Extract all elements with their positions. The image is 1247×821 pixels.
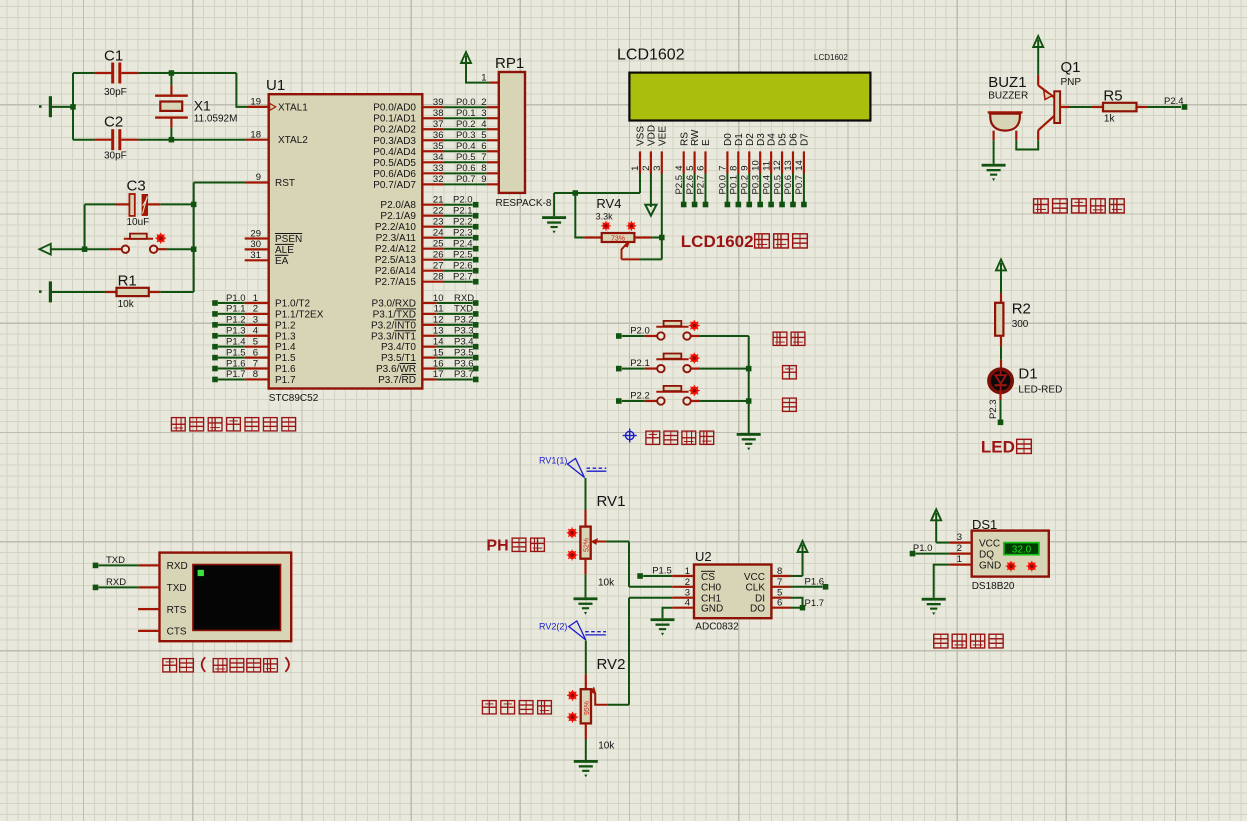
svg-text:RXD: RXD	[167, 561, 188, 572]
capacitor C1	[73, 48, 138, 99]
svg-text:4: 4	[481, 119, 486, 130]
svg-text:INT1: INT1	[394, 331, 416, 342]
svg-text:ALE: ALE	[275, 245, 294, 256]
svg-text:CLK: CLK	[746, 583, 766, 594]
svg-text:TXD: TXD	[106, 555, 125, 566]
wire arrow to reset button	[51, 248, 122, 250]
svg-text:RP1: RP1	[495, 55, 524, 72]
wire P2.1 to button	[622, 368, 657, 370]
svg-text:P2.4/A12: P2.4/A12	[375, 244, 417, 255]
svg-text:12: 12	[433, 315, 444, 326]
svg-text:RV2: RV2	[597, 656, 626, 673]
svg-text:STC89C52: STC89C52	[269, 393, 319, 404]
temperature sensor DS1 DS18B20	[972, 517, 1049, 592]
svg-text:P0.7: P0.7	[456, 174, 476, 185]
svg-text:31: 31	[250, 250, 261, 261]
svg-text:P2.1/A9: P2.1/A9	[380, 211, 416, 222]
svg-text:3.3k: 3.3k	[596, 212, 614, 222]
svg-text:XTAL1: XTAL1	[278, 102, 308, 113]
button ground bus	[748, 336, 750, 433]
label LCD1602显示屏	[681, 232, 808, 251]
svg-text:GND: GND	[701, 604, 723, 615]
svg-text:R5: R5	[1103, 87, 1122, 104]
svg-text:11: 11	[761, 161, 772, 171]
svg-text:TXD: TXD	[454, 304, 473, 315]
svg-text:24: 24	[433, 228, 444, 239]
svg-text:P1.4: P1.4	[275, 342, 296, 353]
U1 pins PSEN/ALE/EA stubs	[245, 228, 269, 261]
svg-text:D4: D4	[767, 133, 778, 146]
LCD pin names and stubs	[630, 125, 810, 174]
svg-text:P0.6/AD6: P0.6/AD6	[373, 169, 416, 180]
svg-text:R1: R1	[118, 273, 137, 290]
svg-text:VCC: VCC	[979, 539, 1000, 550]
svg-text:3: 3	[481, 108, 486, 119]
label 测温模块	[934, 634, 1003, 648]
wire reset button to RST	[157, 248, 194, 250]
ground (buttons)	[737, 433, 761, 450]
svg-text:14: 14	[433, 336, 444, 347]
svg-text:P0.4/AD4: P0.4/AD4	[373, 147, 416, 158]
svg-text:P1.1/T2EX: P1.1/T2EX	[275, 309, 324, 320]
svg-text:30: 30	[250, 239, 261, 250]
power terminal (RP1)	[461, 52, 471, 83]
terminal P1.5 to CS	[637, 566, 694, 579]
svg-text:P3.2: P3.2	[454, 315, 474, 326]
svg-text:P0.1/AD1: P0.1/AD1	[373, 114, 416, 125]
svg-text:22: 22	[433, 206, 444, 217]
svg-text:9: 9	[481, 174, 486, 185]
svg-text:P3.4: P3.4	[454, 336, 474, 347]
svg-text:P0.0/AD0: P0.0/AD0	[373, 103, 416, 114]
wire button P2.0 to gnd bus	[691, 335, 749, 337]
svg-text:P1.7: P1.7	[226, 369, 246, 380]
RV1 wiper to CH0	[591, 538, 630, 587]
svg-text:P2.6: P2.6	[453, 261, 473, 272]
svg-text:P2.6/A14: P2.6/A14	[375, 266, 417, 277]
svg-text:6: 6	[253, 347, 258, 358]
svg-text:VSS: VSS	[636, 126, 647, 146]
svg-text:P3.6/: P3.6/	[376, 364, 400, 375]
svg-text:C1: C1	[104, 48, 123, 65]
svg-text:P3.0/RXD: P3.0/RXD	[372, 299, 416, 310]
svg-text:8: 8	[481, 163, 486, 174]
svg-text:P3.1/: P3.1/	[373, 309, 397, 320]
svg-text:27: 27	[433, 261, 444, 272]
svg-text:WR: WR	[399, 364, 416, 375]
svg-text:32: 32	[433, 174, 444, 185]
svg-text:37: 37	[433, 119, 444, 130]
svg-text:P3.2/: P3.2/	[371, 320, 395, 331]
power terminal (DS1)	[931, 509, 941, 542]
svg-text:LCD1602: LCD1602	[617, 47, 685, 64]
svg-text:P0.1: P0.1	[456, 108, 476, 119]
svg-text:RXD: RXD	[106, 577, 126, 588]
svg-text:P0.2/AD2: P0.2/AD2	[373, 125, 416, 136]
resistor pack RP1 RESPACK-8	[495, 55, 552, 209]
wire CH1	[629, 597, 694, 599]
svg-text:LED-RED: LED-RED	[1018, 385, 1062, 396]
svg-text:P2.5/A13: P2.5/A13	[375, 255, 417, 266]
svg-text:P2.6: P2.6	[685, 175, 696, 195]
svg-text:13: 13	[433, 326, 444, 337]
svg-text:U2: U2	[695, 549, 712, 564]
svg-text:PSEN: PSEN	[275, 234, 302, 245]
svg-text:52%: 52%	[584, 538, 591, 552]
wire C2 to X1 bottom node	[138, 139, 246, 141]
svg-text:11: 11	[434, 304, 444, 315]
svg-text:16: 16	[433, 358, 444, 369]
ground (RV1)	[574, 597, 598, 614]
svg-text:P3.7/: P3.7/	[378, 375, 402, 386]
ground rail symbol (left of R1)	[39, 281, 52, 302]
svg-text:P2.1: P2.1	[630, 358, 650, 369]
wire VSS rail drop to ground	[553, 193, 555, 216]
svg-text:P0.5/AD5: P0.5/AD5	[373, 158, 416, 169]
terminal P1.0 to DQ	[910, 543, 950, 556]
svg-text:P1.5: P1.5	[226, 347, 246, 358]
svg-text:28: 28	[433, 272, 444, 283]
svg-text:VDD: VDD	[647, 125, 658, 146]
power terminal (buzzer)	[1033, 36, 1043, 75]
svg-text:29: 29	[250, 228, 261, 239]
svg-text:DQ: DQ	[979, 550, 994, 561]
junction bus row3	[746, 398, 752, 404]
svg-text:CS: CS	[701, 572, 715, 583]
push button (P2.2)	[656, 385, 699, 405]
svg-text:38: 38	[433, 108, 444, 119]
power terminal (U2 VCC)	[798, 541, 808, 576]
terminal P2.0	[616, 325, 650, 338]
wire DS1 GND	[934, 565, 950, 598]
terminal P2.4	[1148, 96, 1188, 110]
svg-text:8: 8	[253, 369, 258, 380]
svg-text:36: 36	[433, 130, 444, 141]
svg-text:P1.3: P1.3	[275, 331, 296, 342]
LCD data/control wires with net labels	[674, 174, 807, 208]
svg-text:11.0592M: 11.0592M	[194, 114, 238, 125]
power terminal (LED)	[996, 259, 1006, 293]
svg-text:P1.4: P1.4	[226, 336, 246, 347]
U1 pin number 9	[256, 172, 261, 183]
junction RV4 top	[573, 190, 579, 196]
svg-text:4: 4	[674, 166, 685, 171]
ground (U2)	[651, 618, 675, 635]
svg-text:EA: EA	[275, 256, 289, 267]
label PH调节	[486, 538, 544, 555]
junction X1 bottom	[169, 137, 175, 143]
svg-text:12: 12	[772, 160, 783, 171]
wire DS1 VCC to power	[936, 542, 950, 544]
wire R2 to LED	[1000, 347, 1002, 369]
svg-text:P0.7: P0.7	[794, 175, 805, 195]
buzzer BUZ1	[988, 74, 1028, 140]
wire power to RP1 pin1	[466, 72, 499, 83]
svg-text:P1.0: P1.0	[226, 293, 246, 304]
svg-text:P0.3: P0.3	[456, 130, 476, 141]
svg-text:DS1: DS1	[972, 517, 997, 532]
power down arrow (VDD)	[645, 174, 656, 216]
svg-text:D1: D1	[734, 133, 745, 146]
svg-text:RV1: RV1	[597, 493, 626, 510]
svg-text:2: 2	[481, 97, 486, 108]
svg-text:1k: 1k	[1104, 114, 1116, 125]
svg-text:5: 5	[481, 130, 486, 141]
ground (DS1)	[922, 598, 946, 615]
svg-text:300: 300	[1012, 319, 1029, 330]
svg-text:P0.5: P0.5	[456, 152, 476, 163]
svg-text:P1.3: P1.3	[226, 326, 246, 337]
svg-text:P3.5/T1: P3.5/T1	[381, 353, 416, 364]
svg-text:10: 10	[433, 293, 444, 304]
junction VEE-RV4	[659, 235, 665, 241]
svg-text:P1.7: P1.7	[275, 375, 296, 386]
svg-text:1: 1	[481, 72, 486, 83]
svg-text:13: 13	[783, 160, 794, 171]
label 独立按键	[646, 431, 714, 444]
wire RV4 left leg	[575, 193, 601, 238]
left arrow terminal (reset row)	[39, 244, 50, 255]
wire CLK to P1.6	[771, 576, 828, 589]
svg-text:RXD: RXD	[454, 293, 474, 304]
svg-text:VEE: VEE	[657, 126, 668, 146]
svg-text:RTS: RTS	[167, 605, 187, 616]
svg-text:RS: RS	[679, 132, 690, 146]
svg-text:P1.6: P1.6	[275, 364, 296, 375]
svg-text:P0.6: P0.6	[783, 175, 794, 195]
terminal RXD net	[93, 577, 139, 590]
svg-text:P2.4: P2.4	[453, 239, 473, 250]
U1 P2 pins with terminals	[422, 195, 478, 285]
svg-text:17: 17	[433, 369, 444, 380]
svg-text:C3: C3	[127, 178, 146, 195]
wire CH0	[629, 586, 694, 588]
svg-text:P2.3: P2.3	[453, 228, 473, 239]
ground (VSS rail)	[542, 216, 566, 233]
svg-text:PH: PH	[486, 538, 508, 555]
svg-text:P2.4: P2.4	[1164, 96, 1184, 107]
svg-text:21: 21	[433, 195, 444, 206]
svg-text:BUZZER: BUZZER	[988, 91, 1028, 102]
label 单片机最小系统	[171, 418, 295, 431]
svg-text:BUZ1: BUZ1	[988, 74, 1026, 91]
wire C3 left vertical	[84, 204, 86, 249]
svg-text:ADC0832: ADC0832	[695, 622, 739, 633]
junction bus row2	[746, 366, 752, 372]
wire buzzer left to ground	[993, 140, 995, 164]
svg-text:P0.5: P0.5	[772, 175, 783, 195]
terminal pin stubs	[138, 565, 159, 631]
svg-text:D3: D3	[756, 133, 767, 146]
svg-text:32.0: 32.0	[1012, 545, 1032, 556]
svg-text:D2: D2	[745, 133, 756, 146]
label 减	[783, 398, 797, 411]
svg-text:P1.2: P1.2	[275, 320, 296, 331]
svg-text:P3.5: P3.5	[454, 347, 474, 358]
svg-text:1: 1	[630, 166, 641, 171]
junction button-RST	[191, 246, 197, 252]
svg-text:30pF: 30pF	[104, 87, 127, 98]
wire button P2.2 to gnd bus	[691, 400, 749, 402]
svg-text:23: 23	[433, 217, 444, 228]
svg-text:P1.7: P1.7	[805, 598, 825, 609]
svg-text:2: 2	[641, 166, 652, 171]
resistor R1 10k	[52, 273, 194, 311]
svg-text:D1: D1	[1018, 366, 1037, 383]
svg-text:6: 6	[481, 141, 486, 152]
svg-text:P0.3: P0.3	[750, 175, 761, 195]
terminal TXD net	[93, 555, 139, 568]
svg-text:P0.0: P0.0	[456, 97, 476, 108]
svg-text:PNP: PNP	[1061, 77, 1082, 88]
ground (buzzer)	[982, 164, 1006, 181]
svg-text:2: 2	[253, 304, 258, 315]
svg-text:P2.2: P2.2	[630, 390, 650, 401]
wire ground to node	[52, 106, 73, 108]
crystal X1 11.0592M	[155, 73, 237, 140]
svg-text:D6: D6	[789, 133, 800, 146]
svg-text:P1.6: P1.6	[226, 358, 246, 369]
svg-text:P3.7: P3.7	[454, 369, 474, 380]
wire VSS to ground rail	[554, 174, 640, 194]
svg-text:D0: D0	[723, 133, 734, 146]
U1 pin number 18	[250, 129, 261, 140]
label 终端（模拟手机）	[163, 657, 289, 672]
svg-text:P0.7/AD7: P0.7/AD7	[373, 180, 416, 191]
svg-text:P0.4: P0.4	[761, 175, 772, 195]
U1 P3 pins with terminals	[422, 293, 478, 382]
svg-text:6: 6	[696, 166, 707, 171]
push button (reset)	[122, 233, 166, 253]
wire RST net vertical	[194, 183, 269, 293]
svg-text:30pF: 30pF	[104, 151, 127, 162]
resistor R2 300	[995, 293, 1031, 347]
svg-text:C2: C2	[104, 114, 123, 131]
svg-text:P2.7: P2.7	[453, 272, 473, 283]
svg-text:10k: 10k	[118, 299, 135, 310]
wire C1 to X1 top node	[138, 72, 236, 74]
svg-text:9: 9	[739, 166, 750, 171]
svg-text:LCD1602: LCD1602	[814, 53, 848, 62]
LED D1 LED-RED	[989, 366, 1062, 396]
wire P2.0 to button	[622, 335, 657, 337]
ground (RV2)	[574, 760, 598, 777]
svg-text:RD: RD	[402, 375, 416, 386]
svg-text:95%: 95%	[584, 701, 591, 715]
svg-text:P3.3: P3.3	[454, 326, 474, 337]
wire VCC U2	[771, 575, 802, 577]
svg-text:P3.3/: P3.3/	[371, 331, 395, 342]
svg-text:33: 33	[433, 163, 444, 174]
svg-text:P2.5: P2.5	[453, 250, 473, 261]
svg-text:10k: 10k	[598, 578, 615, 589]
RV4 wiper	[622, 238, 662, 260]
U2 pin numbers	[685, 566, 783, 609]
svg-text:P2.3/A11: P2.3/A11	[376, 233, 417, 244]
wire P2.2 to button	[622, 400, 657, 402]
wire XTAL2 stub	[246, 139, 269, 141]
svg-text:14: 14	[794, 160, 805, 171]
svg-text:P0.4: P0.4	[456, 141, 476, 152]
svg-text:P2.2/A10: P2.2/A10	[375, 222, 417, 233]
RV2 wiper to CH1	[590, 598, 630, 705]
svg-text:15: 15	[433, 347, 444, 358]
potentiometer RV4 3.3k	[596, 196, 637, 242]
wire Q1 base to R5	[1069, 106, 1091, 108]
wire VEE down to RV4	[661, 174, 663, 238]
svg-text:P2.7/A15: P2.7/A15	[375, 277, 417, 288]
resistor R5 1k	[1091, 87, 1147, 124]
svg-text:10: 10	[750, 160, 761, 171]
svg-text:P2.0: P2.0	[630, 325, 650, 336]
svg-text:P1.5: P1.5	[275, 353, 296, 364]
svg-text:E: E	[701, 139, 712, 146]
ground rail symbol (left of C1/C2)	[39, 96, 52, 117]
svg-text:P2.3: P2.3	[988, 399, 999, 419]
wire buzzer to Q1 collector	[1016, 140, 1038, 149]
svg-text:P1.6: P1.6	[805, 576, 825, 587]
svg-text:73%: 73%	[611, 235, 625, 242]
svg-text:P0.2: P0.2	[739, 175, 750, 195]
svg-text:3: 3	[957, 532, 962, 543]
svg-text:P2.0: P2.0	[453, 195, 473, 206]
wire XTAL1 from node	[236, 73, 268, 107]
svg-text:RV2(2): RV2(2)	[539, 622, 567, 632]
svg-text:P1.1: P1.1	[226, 304, 246, 315]
junction left vertical	[70, 104, 76, 110]
U1 pin number 19	[250, 97, 261, 108]
label 设置	[773, 332, 805, 345]
LCD1602 display screen	[617, 47, 870, 121]
svg-text:P2.1: P2.1	[453, 206, 473, 217]
svg-text:P0.6: P0.6	[456, 163, 476, 174]
push button (P2.1)	[656, 353, 699, 373]
ADC U2 ADC0832	[694, 549, 771, 633]
svg-text:P1.2: P1.2	[226, 315, 246, 326]
svg-text:P1.0/T2: P1.0/T2	[275, 299, 310, 310]
svg-text:VCC: VCC	[744, 572, 765, 583]
svg-text:LED: LED	[981, 438, 1015, 457]
svg-text:18: 18	[250, 129, 261, 140]
svg-text:TXD: TXD	[396, 309, 416, 320]
virtual terminal (模拟手机)	[160, 553, 292, 642]
wire left vertical C1-C2	[72, 73, 74, 140]
svg-text:1: 1	[253, 293, 258, 304]
svg-text:P0.1: P0.1	[729, 175, 740, 195]
svg-text:26: 26	[433, 250, 444, 261]
terminal P2.2	[616, 390, 650, 403]
svg-text:4: 4	[253, 326, 258, 337]
svg-text:P0.3/AD3: P0.3/AD3	[373, 136, 416, 147]
wire DI/DO to P1.7	[771, 598, 824, 611]
U1 P1 pins with terminals	[212, 293, 269, 382]
svg-text:7: 7	[718, 166, 729, 171]
svg-text:35: 35	[433, 141, 444, 152]
svg-text:DS18B20: DS18B20	[972, 581, 1015, 592]
wires U1 P0 bus to RP1	[422, 97, 499, 185]
label 蜂鸣器报警	[1034, 199, 1125, 213]
svg-text:DO: DO	[750, 604, 765, 615]
svg-text:39: 39	[433, 97, 444, 108]
push button (P2.0)	[656, 320, 699, 340]
label 水质调节	[482, 701, 551, 714]
svg-text:3: 3	[253, 315, 258, 326]
capacitor C3 10uF	[85, 178, 194, 229]
svg-text:U1: U1	[266, 77, 285, 94]
origin marker	[623, 429, 637, 443]
wire button P2.1 to gnd bus	[691, 368, 749, 370]
svg-text:RST: RST	[275, 178, 295, 189]
